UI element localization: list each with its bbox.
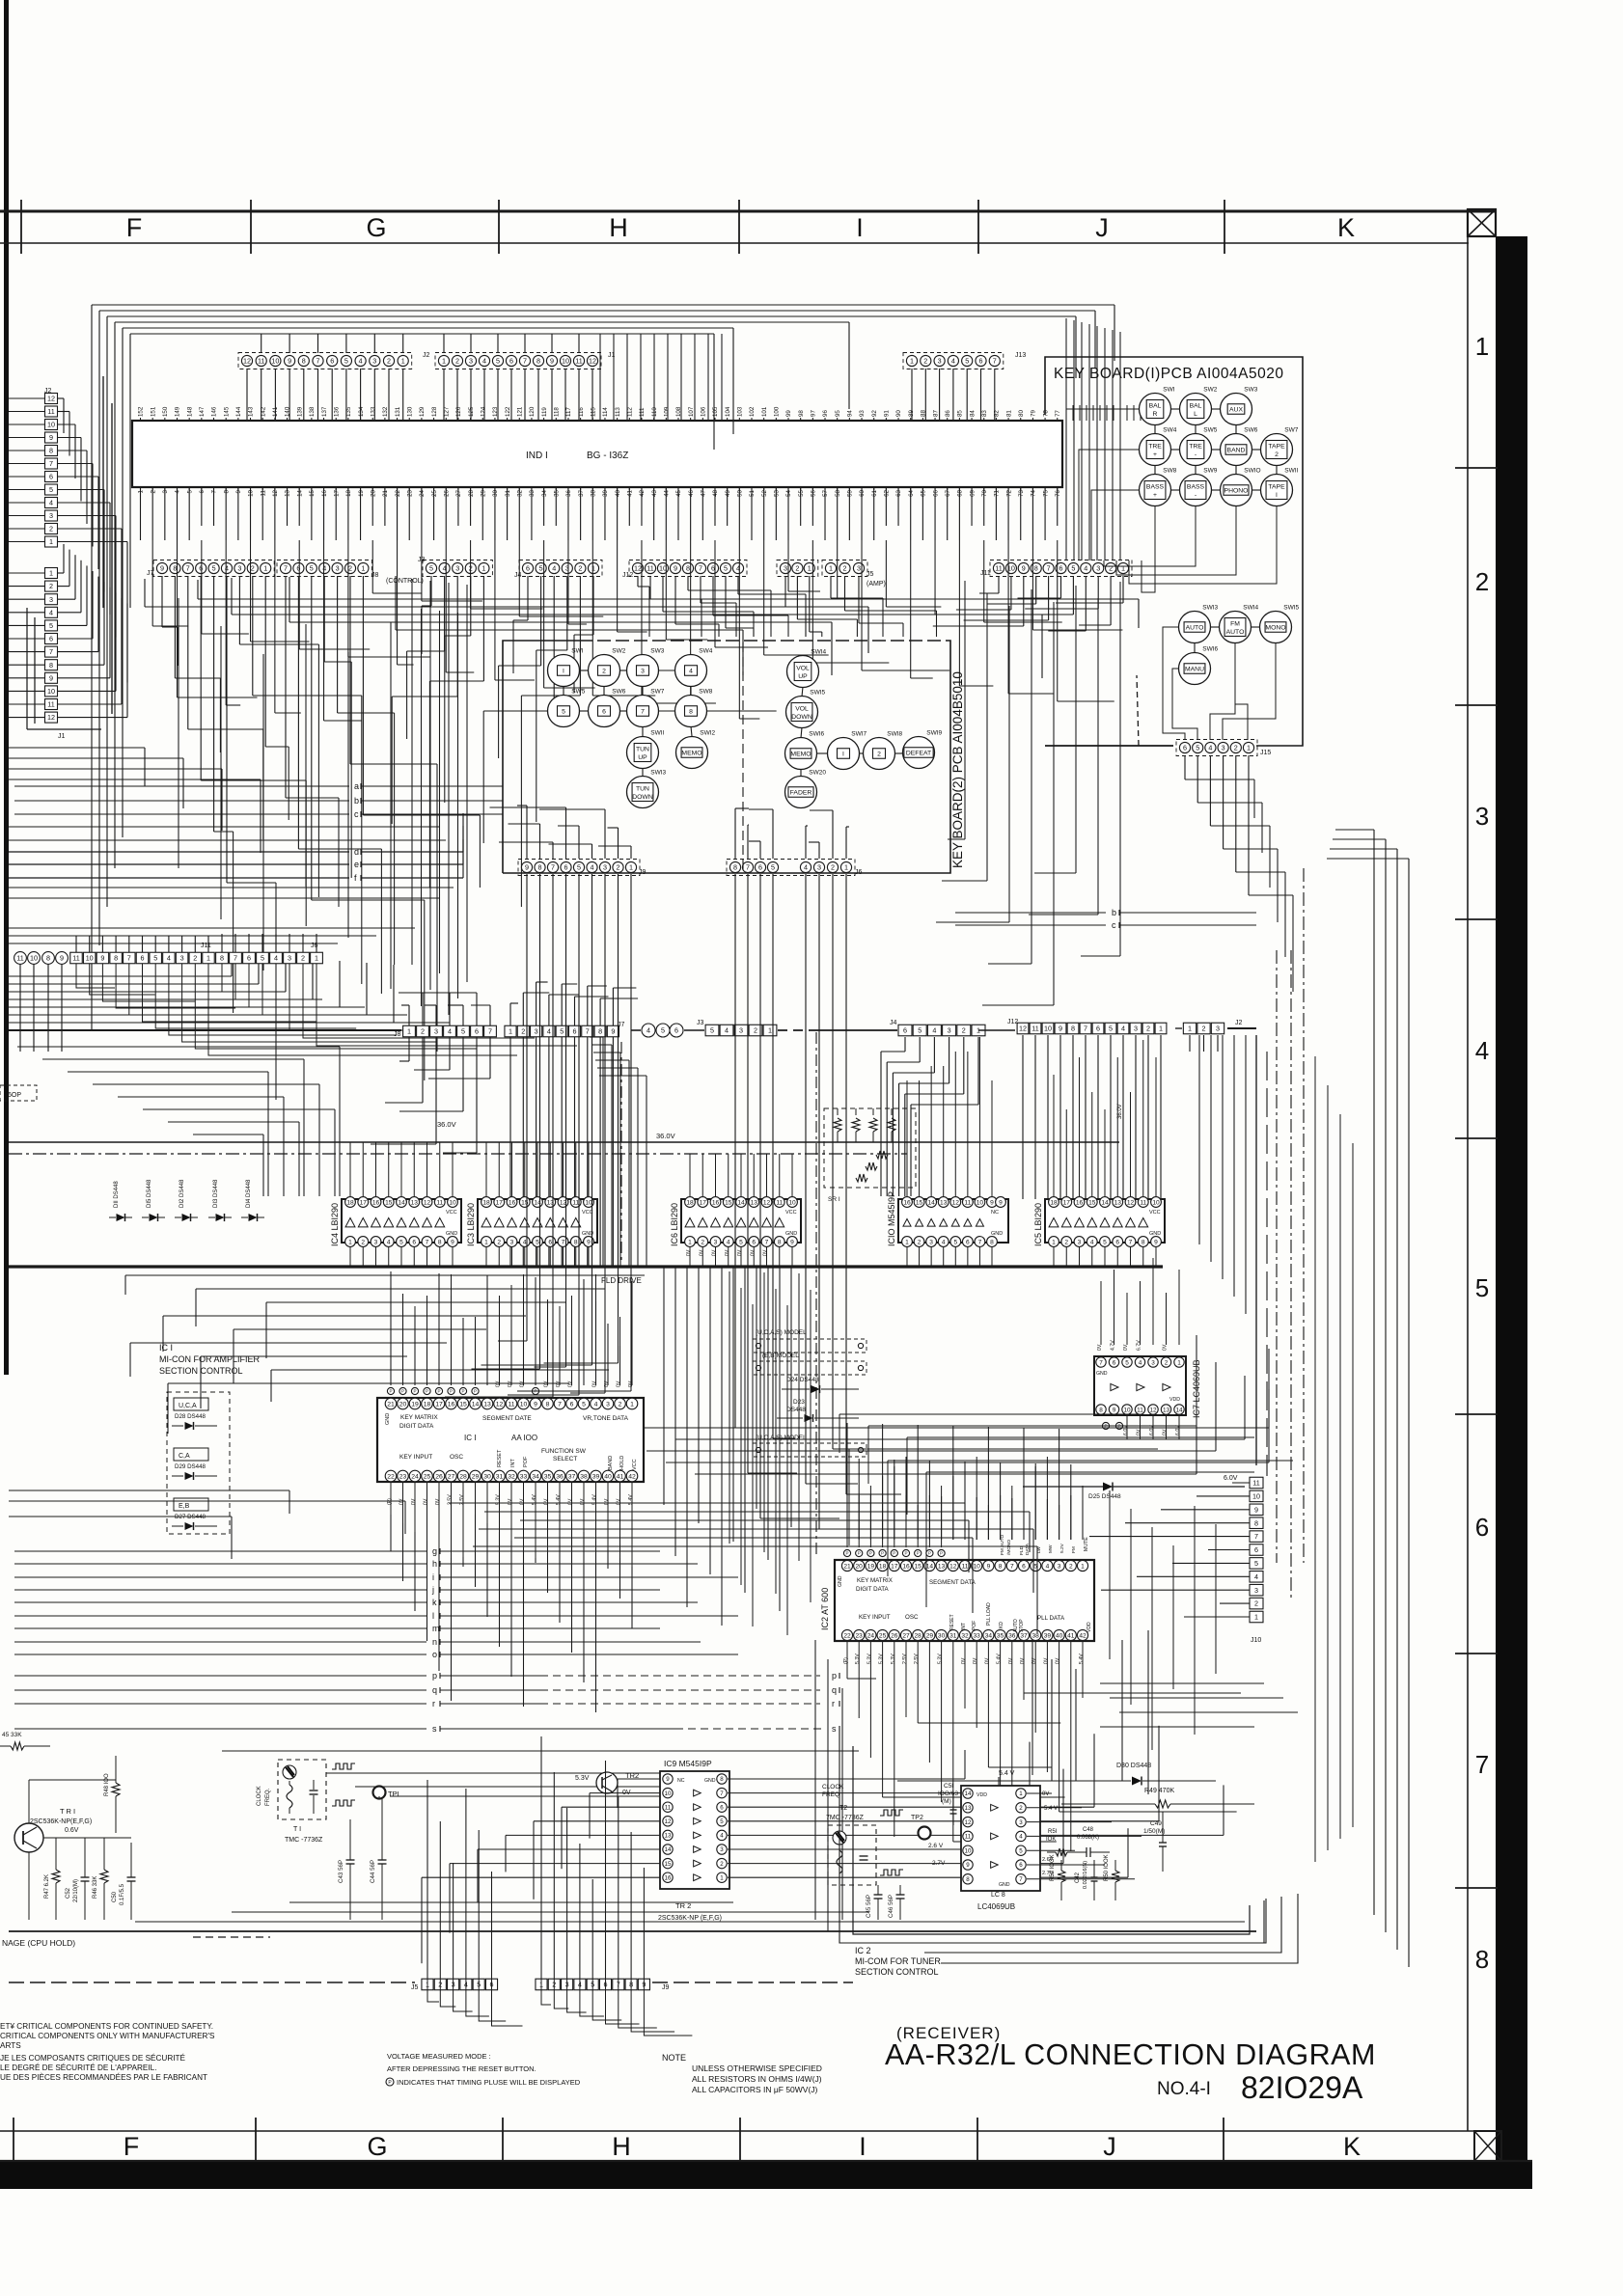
svg-text:138: 138 (309, 406, 316, 417)
svg-text:SWI5: SWI5 (1283, 605, 1299, 612)
svg-text:6: 6 (1096, 1025, 1100, 1033)
svg-text:INT: INT (961, 1623, 967, 1630)
svg-text:J9: J9 (662, 1984, 670, 1991)
svg-text:DII DS448: DII DS448 (114, 1181, 120, 1208)
connector J12 row3 (1017, 1023, 1029, 1034)
svg-text:119: 119 (541, 407, 548, 417)
svg-text:0.1F/5.5: 0.1F/5.5 (120, 1883, 125, 1905)
svg-text:SECTION CONTROL: SECTION CONTROL (855, 1967, 939, 1977)
svg-text:36.0V: 36.0V (437, 1120, 456, 1129)
svg-text:TRE: TRE (1189, 443, 1202, 450)
svg-text:SWI6: SWI6 (809, 731, 824, 738)
switch SW16 MANU (1179, 653, 1211, 685)
connector J6 left boxes (216, 952, 229, 964)
svg-text:1: 1 (630, 1401, 634, 1408)
svg-text:0.022/16(N): 0.022/16(N) (1083, 1861, 1088, 1889)
svg-text:6: 6 (1059, 564, 1063, 573)
svg-text:41: 41 (617, 1473, 624, 1480)
svg-text:9: 9 (160, 564, 164, 573)
svg-text:7: 7 (1019, 1876, 1023, 1883)
wire extra right verticals (1314, 1056, 1316, 1862)
svg-text:17: 17 (360, 1199, 368, 1206)
svg-text:15: 15 (459, 1401, 467, 1408)
svg-text:5: 5 (560, 1027, 564, 1036)
svg-text:105: 105 (712, 406, 719, 417)
svg-text:0V: 0V (763, 1249, 769, 1256)
svg-text:SW8: SW8 (1163, 468, 1176, 475)
svg-text:130: 130 (406, 406, 413, 417)
svg-text:KEY INPUT: KEY INPUT (859, 1614, 891, 1621)
svg-text:2: 2 (251, 564, 255, 573)
svg-text:J13: J13 (1015, 352, 1026, 359)
svg-text:107: 107 (688, 406, 695, 417)
svg-text:19: 19 (358, 489, 365, 496)
svg-text:ARTS: ARTS (0, 2041, 21, 2050)
svg-text:2.7V: 2.7V (932, 1860, 946, 1867)
svg-text:NAGE (CPU HOLD): NAGE (CPU HOLD) (2, 1938, 75, 1948)
svg-text:C46 56P: C46 56P (888, 1895, 894, 1918)
wires IC9 left (618, 1778, 660, 1780)
svg-text:7: 7 (551, 863, 555, 872)
svg-text:POF: POF (523, 1456, 529, 1467)
svg-text:VDD: VDD (1087, 1622, 1092, 1632)
svg-text:G: G (366, 213, 386, 242)
svg-text:2: 2 (1019, 1805, 1023, 1812)
svg-text:0V: 0V (1097, 1344, 1103, 1351)
svg-text:76: 76 (1055, 489, 1061, 496)
svg-text:2: 2 (701, 1239, 704, 1245)
svg-text:INT: INT (510, 1459, 516, 1468)
wires switch grid keyboard1 (1170, 408, 1180, 410)
svg-text:2: 2 (619, 1401, 622, 1408)
svg-text:117: 117 (565, 407, 572, 417)
svg-text:POF: POF (972, 1621, 977, 1630)
svg-text:21: 21 (382, 489, 389, 496)
svg-text:c: c (354, 809, 359, 819)
switch SW5 kb2 (548, 696, 580, 727)
svg-text:4: 4 (689, 669, 693, 675)
svg-text:11: 11 (575, 357, 582, 366)
svg-text:6: 6 (752, 1239, 756, 1245)
svg-text:SW4: SW4 (699, 648, 712, 655)
svg-text:2: 2 (923, 357, 927, 366)
svg-text:(M): (M) (942, 1798, 951, 1805)
svg-text:SW3: SW3 (650, 648, 664, 655)
svg-text:17: 17 (496, 1199, 504, 1206)
wire bus left A (9, 826, 439, 828)
svg-text:6: 6 (1183, 744, 1187, 752)
tuner section enclosure loops (853, 1746, 1250, 1934)
svg-text:13: 13 (483, 1401, 491, 1408)
svg-text:4: 4 (1121, 1025, 1125, 1033)
svg-text:28: 28 (459, 1473, 467, 1480)
svg-text:J4: J4 (514, 572, 522, 579)
svg-text:37: 37 (578, 489, 585, 496)
svg-text:7: 7 (49, 459, 53, 468)
svg-text:P: P (893, 1551, 895, 1556)
svg-text:97: 97 (811, 410, 817, 417)
svg-text:87: 87 (932, 410, 939, 417)
svg-text:q: q (432, 1685, 437, 1695)
svg-text:136: 136 (333, 406, 340, 417)
svg-text:20: 20 (370, 489, 376, 496)
svg-text:34: 34 (541, 489, 548, 496)
svg-text:1: 1 (206, 954, 210, 963)
svg-text:16: 16 (665, 1874, 672, 1881)
svg-text:3: 3 (49, 595, 53, 604)
svg-text:7: 7 (1475, 1750, 1489, 1779)
svg-text:27: 27 (455, 489, 462, 496)
svg-text:43: 43 (651, 489, 658, 496)
svg-text:J: J (1095, 213, 1109, 242)
svg-text:10: 10 (1152, 1199, 1160, 1206)
svg-text:SW6: SW6 (1244, 427, 1257, 434)
svg-text:7: 7 (316, 357, 320, 366)
svg-text:3: 3 (784, 564, 787, 573)
svg-text:11: 11 (258, 357, 264, 366)
svg-text:1: 1 (720, 1874, 724, 1881)
svg-text:3: 3 (606, 1401, 610, 1408)
svg-text:IC I: IC I (464, 1434, 476, 1442)
svg-text:TAPE: TAPE (1268, 483, 1285, 490)
svg-text:0V: 0V (424, 1498, 429, 1505)
svg-text:9: 9 (966, 1862, 970, 1869)
svg-text:8: 8 (438, 1239, 442, 1245)
svg-text:DOWN: DOWN (791, 714, 812, 721)
svg-text:SWI3: SWI3 (650, 770, 666, 777)
svg-text:33: 33 (529, 489, 536, 496)
svg-text:25: 25 (424, 1473, 431, 1480)
svg-text:84: 84 (969, 410, 976, 417)
svg-text:8: 8 (1142, 1239, 1145, 1245)
svg-text:32: 32 (961, 1632, 969, 1639)
IC6 LB1290 FLD driver (681, 1199, 801, 1243)
svg-text:BG - I36Z: BG - I36Z (587, 451, 628, 461)
connector J8 row2 (277, 560, 371, 577)
svg-text:42: 42 (639, 489, 646, 496)
svg-text:0V: 0V (399, 1498, 405, 1505)
svg-text:3: 3 (237, 564, 241, 573)
svg-text:P: P (450, 1389, 453, 1394)
svg-text:P: P (940, 1551, 943, 1556)
svg-text:8: 8 (49, 447, 53, 455)
svg-text:SWI4: SWI4 (811, 649, 826, 656)
svg-text:2: 2 (150, 489, 156, 493)
svg-text:12: 12 (952, 1199, 960, 1206)
switch SW7 TAPE2 (1261, 434, 1293, 466)
svg-text:19: 19 (867, 1563, 875, 1570)
svg-text:1: 1 (49, 537, 53, 546)
svg-text:10: 10 (1252, 1491, 1260, 1500)
IC2 pin wires up (846, 1505, 848, 1547)
svg-text:2: 2 (1069, 1563, 1073, 1570)
svg-text:J5: J5 (411, 1984, 419, 1991)
svg-text:4: 4 (646, 1026, 650, 1035)
svg-text:FLD: FLD (1019, 1545, 1025, 1555)
svg-text:17: 17 (333, 489, 340, 496)
svg-text:10: 10 (788, 1199, 796, 1206)
switch SW4 TRE+ (1140, 434, 1171, 466)
svg-text:11: 11 (508, 1401, 514, 1408)
svg-text:36.0V: 36.0V (656, 1132, 675, 1140)
svg-text:71: 71 (994, 489, 1001, 496)
wire model-box bundle verticals (729, 1271, 730, 1544)
svg-text:MUTE: MUTE (1084, 1537, 1089, 1551)
wires IND1 bottom pins drop (140, 487, 142, 540)
svg-text:74: 74 (1031, 489, 1037, 496)
svg-text:9: 9 (999, 1199, 1003, 1206)
connector J9 kb2 (518, 860, 640, 876)
svg-text:TMC -7736Z: TMC -7736Z (285, 1837, 323, 1844)
svg-text:VOL: VOL (796, 665, 810, 671)
svg-text:GND: GND (1096, 1371, 1108, 1377)
svg-text:a: a (354, 781, 359, 791)
svg-text:5: 5 (1475, 1273, 1489, 1302)
connector J13 (903, 353, 1004, 369)
svg-text:1: 1 (1052, 1239, 1056, 1245)
switch SW19 DEFEAT (903, 737, 935, 769)
svg-text:109: 109 (664, 406, 671, 417)
wire labels p q r (14, 1675, 426, 1677)
switch SW12 MEMO kb2 (676, 737, 708, 769)
svg-text:4: 4 (175, 489, 181, 493)
svg-text:2: 2 (1109, 564, 1113, 573)
svg-text:94: 94 (847, 410, 854, 417)
svg-text:5: 5 (310, 564, 314, 573)
svg-text:2: 2 (795, 564, 799, 573)
svg-text:q: q (832, 1685, 837, 1695)
svg-text:4: 4 (49, 499, 53, 507)
svg-text:22/10(M): 22/10(M) (73, 1879, 79, 1902)
svg-text:U,C,A: U,C,A (179, 1403, 197, 1409)
svg-text:8: 8 (220, 954, 224, 963)
switch SW14 FM AUTO (1220, 612, 1252, 643)
svg-text:TUN: TUN (636, 785, 649, 792)
svg-text:C42: C42 (1075, 1872, 1081, 1883)
svg-text:SW20: SW20 (809, 770, 826, 777)
svg-text:8: 8 (1475, 1945, 1489, 1974)
svg-text:KEY INPUT: KEY INPUT (399, 1454, 432, 1461)
svg-text:39: 39 (602, 489, 609, 496)
left trunk verticals from loop bus (91, 305, 93, 1030)
wires IC9 right (728, 1778, 965, 1780)
svg-text:J2: J2 (1235, 1020, 1243, 1026)
svg-text:2: 2 (1234, 744, 1238, 752)
svg-text:SWI5: SWI5 (810, 690, 825, 697)
svg-text:75: 75 (1042, 489, 1049, 496)
svg-text:1: 1 (49, 569, 53, 578)
svg-text:11: 11 (1252, 1479, 1259, 1488)
svg-text:SW2: SW2 (1203, 387, 1217, 394)
svg-text:3: 3 (948, 1026, 951, 1035)
svg-text:3: 3 (1134, 1025, 1138, 1033)
svg-text:18: 18 (346, 1199, 354, 1206)
svg-text:0V: 0V (984, 1657, 990, 1664)
svg-text:0V: 0V (1043, 1657, 1049, 1664)
svg-text:(CONTROL): (CONTROL) (386, 578, 424, 585)
svg-text:8: 8 (1099, 1407, 1103, 1413)
svg-text:OSC: OSC (905, 1614, 919, 1621)
svg-text:3: 3 (180, 954, 184, 963)
svg-text:IC2 AT 600: IC2 AT 600 (820, 1588, 830, 1630)
svg-text:DI3 DS448: DI3 DS448 (213, 1179, 219, 1208)
svg-text:IOK: IOK (1046, 1837, 1056, 1843)
svg-text:7: 7 (586, 1027, 590, 1036)
svg-text:ALL RESISTORS IN OHMS I/4W(J): ALL RESISTORS IN OHMS I/4W(J) (692, 2074, 822, 2084)
svg-text:UP: UP (638, 754, 647, 761)
svg-text:5: 5 (261, 954, 264, 963)
svg-text:25: 25 (431, 489, 438, 496)
svg-text:KEY BOARD(I)PCB AI004A5020: KEY BOARD(I)PCB AI004A5020 (1054, 366, 1283, 382)
connector J7 row2 (153, 560, 274, 577)
svg-text:4: 4 (1019, 1834, 1023, 1841)
svg-text:0V: 0V (544, 1498, 550, 1505)
wire bundle J10 feeders (1198, 1035, 1200, 1244)
svg-text:4: 4 (942, 1239, 946, 1245)
svg-text:15: 15 (725, 1199, 732, 1206)
svg-text:0V: 0V (1020, 1657, 1026, 1664)
svg-text:2: 2 (617, 863, 620, 872)
svg-text:R48 IOO: R48 IOO (104, 1773, 110, 1796)
svg-text:2.5V: 2.5V (914, 1654, 920, 1664)
svg-text:12: 12 (763, 1199, 771, 1206)
svg-text:2: 2 (387, 357, 391, 366)
svg-text:1: 1 (484, 1239, 488, 1245)
svg-text:10: 10 (47, 421, 55, 429)
wire verticals IC2 bottom down (846, 1674, 848, 1679)
svg-text:12: 12 (424, 1199, 431, 1206)
svg-text:2: 2 (301, 954, 305, 963)
svg-text:PLL DATA: PLL DATA (1037, 1615, 1065, 1622)
svg-text:9: 9 (525, 863, 529, 872)
svg-text:SELECT: SELECT (553, 1456, 577, 1462)
wires SW13-16 (1210, 626, 1220, 628)
svg-text:18: 18 (482, 1199, 490, 1206)
svg-text:5: 5 (399, 1239, 403, 1245)
svg-text:J12: J12 (1007, 1019, 1018, 1025)
svg-text:3: 3 (1019, 1819, 1023, 1826)
IC5 LB1290 FLD driver (1045, 1199, 1165, 1243)
svg-text:1: 1 (905, 1239, 909, 1245)
svg-text:6: 6 (199, 564, 203, 573)
stair bundle left of IC4 (17, 1046, 340, 1048)
svg-text:VCC: VCC (446, 1210, 457, 1216)
wire row3 bus line (9, 1029, 401, 1031)
svg-text:0V: 0V (592, 1380, 598, 1387)
svg-text:5: 5 (918, 1026, 922, 1035)
svg-text:SWI9: SWI9 (926, 730, 942, 737)
dash-dot vertical x846 (815, 1032, 817, 1558)
svg-text:36: 36 (1008, 1632, 1016, 1639)
svg-text:41: 41 (1067, 1632, 1075, 1639)
svg-text:5.3V: 5.3V (855, 1654, 861, 1664)
IC1 pin wires down (390, 1482, 392, 1515)
svg-text:UE DES PIÈCES RECOMMANDÉES PAR: UE DES PIÈCES RECOMMANDÉES PAR LE FABRIC… (0, 2072, 207, 2082)
svg-text:7: 7 (1129, 1239, 1133, 1245)
svg-text:58: 58 (835, 489, 841, 496)
wires bottom connectors up (427, 1979, 439, 2002)
capacitor C51 (950, 1809, 957, 1811)
wire verticals feeding IC1 top (390, 1271, 392, 1385)
svg-text:6: 6 (564, 863, 568, 872)
svg-text:P: P (881, 1551, 884, 1556)
svg-text:4: 4 (1046, 1563, 1050, 1570)
svg-text:4: 4 (1084, 564, 1087, 573)
svg-text:4: 4 (725, 1026, 729, 1035)
svg-text:34: 34 (532, 1473, 539, 1480)
svg-text:7: 7 (234, 954, 237, 963)
clock T1 circuit (278, 1760, 326, 1819)
svg-text:0V: 0V (699, 1249, 704, 1256)
svg-text:22: 22 (395, 489, 401, 496)
svg-text:2: 2 (1475, 567, 1489, 596)
svg-text:11: 11 (72, 954, 79, 963)
svg-text:4: 4 (1475, 1036, 1489, 1065)
switch SW5 TRE- (1180, 434, 1212, 466)
svg-text:VCC: VCC (785, 1210, 797, 1216)
svg-text:MONO: MONO (1265, 625, 1285, 632)
svg-text:16: 16 (321, 489, 328, 496)
svg-text:GND: GND (991, 1231, 1003, 1237)
svg-text:C,A: C,A (179, 1453, 190, 1460)
svg-text:66: 66 (932, 489, 939, 496)
svg-text:1: 1 (829, 564, 833, 573)
svg-text:2: 2 (521, 1027, 525, 1036)
svg-text:42: 42 (628, 1473, 636, 1480)
svg-text:12: 12 (496, 1401, 504, 1408)
svg-text:22: 22 (843, 1632, 851, 1639)
wire horizontals near CPU hold (135, 1921, 1245, 1923)
svg-text:5: 5 (562, 709, 565, 716)
svg-text:18: 18 (345, 489, 352, 496)
svg-text:p: p (832, 1671, 837, 1681)
svg-text:15: 15 (385, 1199, 393, 1206)
svg-text:10: 10 (449, 1199, 456, 1206)
svg-text:3: 3 (434, 1027, 438, 1036)
svg-text:50: 50 (737, 489, 744, 496)
svg-text:HOLD: HOLD (619, 1456, 625, 1470)
IC7 LC4069UB hex inverter (1094, 1356, 1186, 1415)
svg-text:o: o (432, 1650, 437, 1659)
svg-text:2.5V: 2.5V (902, 1654, 908, 1664)
svg-text:P: P (845, 1551, 848, 1556)
svg-text:1/50(M): 1/50(M) (1143, 1828, 1165, 1835)
svg-text:128: 128 (431, 406, 438, 417)
bottom black scan bar (0, 2161, 1532, 2189)
svg-text:3: 3 (49, 511, 53, 520)
svg-text:J1: J1 (58, 733, 66, 740)
svg-text:C50: C50 (112, 1891, 118, 1902)
svg-text:35: 35 (544, 1473, 552, 1480)
svg-text:12: 12 (1019, 1025, 1027, 1033)
svg-text:10: 10 (977, 1199, 984, 1206)
svg-text:NC: NC (677, 1778, 685, 1784)
svg-text:P: P (904, 1551, 907, 1556)
svg-text:5.3V: 5.3V (867, 1654, 872, 1664)
svg-text:2: 2 (1254, 1599, 1258, 1608)
IC1 pin wires up (390, 1327, 392, 1385)
svg-text:14: 14 (665, 1846, 672, 1853)
svg-text:7: 7 (699, 564, 702, 573)
svg-text:5.4V: 5.4V (997, 1654, 1003, 1664)
svg-text:8: 8 (546, 1401, 550, 1408)
svg-text:122: 122 (505, 406, 511, 417)
svg-text:17: 17 (1063, 1199, 1071, 1206)
svg-text:62: 62 (884, 489, 891, 496)
svg-text:I: I (856, 213, 864, 242)
svg-text:26: 26 (443, 489, 450, 496)
svg-text:15: 15 (665, 1861, 672, 1868)
